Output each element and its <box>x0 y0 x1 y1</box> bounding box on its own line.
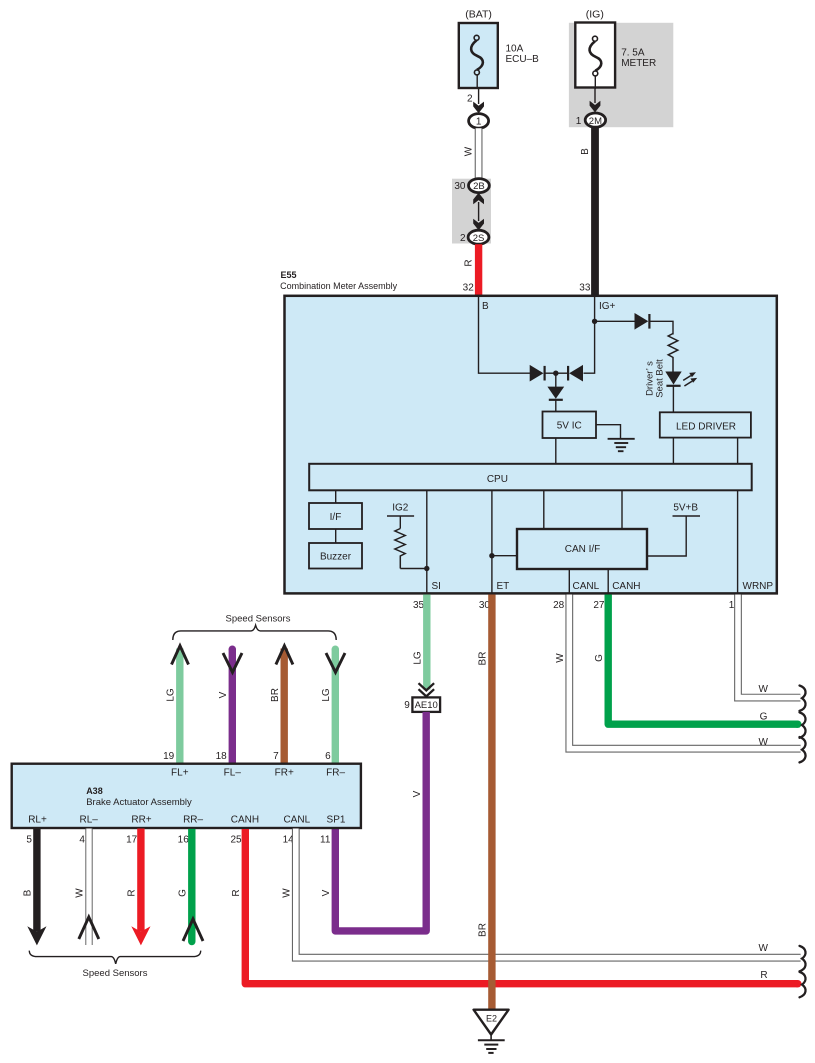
junction IG+ <box>592 319 597 324</box>
wire B from 2M to E55 pin 33 <box>591 127 599 295</box>
continuation curl (CANL W) <box>800 737 806 762</box>
svg-text:E2: E2 <box>486 1014 497 1024</box>
svg-text:7. 5A: 7. 5A <box>621 47 645 58</box>
arrow up 2B <box>473 193 484 205</box>
wire W from CANL pin 14 <box>296 829 801 958</box>
wire V FL- <box>229 649 236 763</box>
wire junction to diode D4 <box>555 373 557 387</box>
wire between arrows <box>478 202 480 221</box>
connector AE10 <box>412 697 440 712</box>
svg-text:W: W <box>758 737 768 748</box>
svg-text:R: R <box>231 889 242 896</box>
svg-text:9: 9 <box>404 700 410 711</box>
svg-text:2M: 2M <box>589 116 602 127</box>
svg-text:33: 33 <box>579 282 591 293</box>
svg-text:I/F: I/F <box>330 512 342 523</box>
wire LED DRIVER to CPU (left) <box>672 438 674 464</box>
svg-text:1: 1 <box>576 116 582 127</box>
svg-text:W: W <box>758 684 768 695</box>
arrow into connector 2M <box>590 101 601 113</box>
svg-text:32: 32 <box>463 282 475 293</box>
connector 2S <box>468 230 489 244</box>
connector 2B <box>469 179 490 193</box>
svg-text:B: B <box>23 889 34 896</box>
wire ET junction to CAN I/F <box>492 555 517 557</box>
wire fuse to connector 1 <box>476 75 478 89</box>
svg-text:FL+: FL+ <box>171 767 189 778</box>
svg-text:2: 2 <box>467 94 473 105</box>
svg-text:28: 28 <box>553 600 565 611</box>
svg-text:5V+B: 5V+B <box>673 503 698 514</box>
svg-text:19: 19 <box>163 751 175 762</box>
svg-text:V: V <box>412 790 423 797</box>
svg-text:B: B <box>580 148 591 155</box>
svg-text:16: 16 <box>178 834 190 845</box>
wire CANH pin <box>607 569 609 593</box>
double chevron into AE10 <box>419 683 435 696</box>
svg-text:Speed Sensors: Speed Sensors <box>83 968 148 979</box>
svg-text:RR–: RR– <box>183 815 203 826</box>
svg-text:CANH: CANH <box>612 581 640 592</box>
svg-text:1: 1 <box>729 600 735 611</box>
fuse block gray background (IG) <box>569 23 673 127</box>
IG2 supply bar <box>387 515 414 517</box>
svg-text:V: V <box>218 691 229 698</box>
diode D3 (to LED) <box>635 313 649 330</box>
svg-text:A38: A38 <box>86 786 103 796</box>
svg-text:18: 18 <box>216 751 228 762</box>
svg-text:(BAT): (BAT) <box>465 9 492 21</box>
svg-text:1: 1 <box>476 117 482 128</box>
svg-text:W: W <box>555 653 566 663</box>
svg-text:ET: ET <box>497 581 510 592</box>
I/F box <box>309 503 362 529</box>
svg-text:RR+: RR+ <box>131 815 151 826</box>
fuse 10A ECU-B body <box>459 23 498 88</box>
svg-text:CPU: CPU <box>487 474 508 485</box>
arrow into connector 1 <box>473 102 484 114</box>
wire fuse to connector 2M <box>594 76 596 89</box>
svg-text:W: W <box>75 888 86 898</box>
wire LED DRIVER to CPU (right) <box>737 438 739 464</box>
arrow down RR+ <box>131 926 150 945</box>
connector 1 <box>469 114 489 129</box>
wire LG from SI pin 35 <box>423 595 430 690</box>
wire IG+ junction to diode D3 <box>595 320 635 322</box>
arrow down 2S <box>473 219 484 231</box>
svg-text:Buzzer: Buzzer <box>320 552 352 563</box>
svg-text:IG2: IG2 <box>392 503 409 514</box>
wire 5V IC to ground <box>596 425 621 439</box>
continuation curl (bottom R) <box>800 972 806 997</box>
wire R from 2S to E55 pin 32 <box>475 244 482 295</box>
svg-text:5: 5 <box>26 834 32 845</box>
svg-text:G: G <box>178 889 189 897</box>
svg-text:ECU–B: ECU–B <box>506 54 540 65</box>
svg-text:R: R <box>127 889 138 896</box>
wire G from CANH pin 27 <box>608 595 798 725</box>
connector 2M <box>585 113 605 127</box>
svg-text:B: B <box>482 301 489 312</box>
wire IG2 resistor to SI line <box>400 568 427 570</box>
wire IG+ internal <box>584 296 595 373</box>
arrow up FR+ <box>276 646 293 665</box>
wire R RR+ <box>137 829 144 932</box>
svg-text:2: 2 <box>460 233 466 244</box>
svg-text:27: 27 <box>593 600 605 611</box>
wire LG FR- <box>332 649 339 763</box>
continuation curl (CANH G) <box>800 712 806 737</box>
svg-text:Seat Belt: Seat Belt <box>654 359 665 398</box>
svg-text:SI: SI <box>432 581 441 592</box>
wire V from AE10 to SP1 <box>335 712 426 931</box>
wire CANL pin <box>568 569 570 593</box>
A38 Brake Actuator Assembly box <box>12 764 361 828</box>
diode D2 (from IG+) <box>569 365 583 382</box>
wire BR from ET pin 30 <box>488 595 495 1010</box>
svg-text:LED DRIVER: LED DRIVER <box>676 422 736 433</box>
arrow down RL+ <box>27 926 46 945</box>
wire SI <box>426 490 428 593</box>
wire W from WRNP pin 1 <box>738 595 800 698</box>
resistor (seat belt LED) <box>668 334 678 372</box>
svg-text:30: 30 <box>454 181 466 192</box>
CPU box <box>309 464 752 491</box>
fuse 7.5A METER element <box>590 41 602 71</box>
svg-text:FL–: FL– <box>224 767 242 778</box>
wire ET <box>491 490 493 593</box>
arrow up RR- <box>183 919 203 941</box>
wire W RL- <box>85 829 92 946</box>
svg-text:CANL: CANL <box>283 815 310 826</box>
svg-text:G: G <box>594 654 605 662</box>
arrow down FL- <box>223 653 242 672</box>
wire W from connector 1 to 2B <box>475 128 483 180</box>
LED DRIVER box <box>660 412 751 437</box>
continuation curl (WRNP W) <box>800 686 806 711</box>
continuation curl (bottom W) <box>800 946 806 971</box>
svg-text:LG: LG <box>412 651 423 665</box>
wire 5V+B to CAN I/F <box>647 516 686 556</box>
svg-text:Brake Actuator Assembly: Brake Actuator Assembly <box>86 797 192 808</box>
svg-text:CANL: CANL <box>573 581 600 592</box>
brace speed sensors bottom <box>29 951 200 964</box>
LED arrows <box>683 376 691 381</box>
wire CPU to CAN I/F (right) <box>621 490 623 529</box>
svg-text:R: R <box>464 259 475 266</box>
svg-text:WRNP: WRNP <box>743 581 774 592</box>
ground E2 triangle <box>474 1010 509 1035</box>
svg-text:R: R <box>760 970 767 981</box>
svg-text:5V IC: 5V IC <box>557 421 582 432</box>
E55 Combination Meter Assembly box <box>285 296 777 594</box>
svg-text:Combination Meter Assembly: Combination Meter Assembly <box>280 281 398 291</box>
wire D3 to resistor <box>649 321 673 334</box>
LED seat belt <box>665 372 681 385</box>
svg-text:RL+: RL+ <box>28 815 47 826</box>
arrow up FL+ <box>172 646 189 665</box>
arrow down FR- <box>326 653 345 672</box>
fuse 10A ECU-B element <box>471 40 483 70</box>
junction SI <box>424 566 429 571</box>
svg-text:CAN I/F: CAN I/F <box>565 544 601 555</box>
svg-text:BR: BR <box>478 652 489 666</box>
wire CPU to CAN I/F (left) <box>543 490 545 529</box>
svg-text:35: 35 <box>413 600 425 611</box>
junction ET <box>489 553 494 558</box>
svg-text:FR–: FR– <box>326 767 345 778</box>
svg-text:LG: LG <box>166 688 177 702</box>
wire I/F to Buzzer <box>335 529 337 543</box>
junction diode pair <box>553 371 558 376</box>
connector block gray background 2B/2S <box>452 179 491 244</box>
svg-text:7: 7 <box>273 751 279 762</box>
wire G RR- <box>188 829 195 942</box>
svg-text:2S: 2S <box>473 233 485 244</box>
wire R from CANH pin 25 <box>245 829 798 984</box>
wire CPU to I/F <box>335 490 337 503</box>
svg-text:BR: BR <box>270 688 281 702</box>
Buzzer box <box>309 543 362 569</box>
ground E2 stem and bars <box>490 1034 492 1041</box>
wire BR FR+ <box>281 649 288 763</box>
wire B RL+ <box>33 829 40 932</box>
wire 5V IC to CPU <box>555 438 557 464</box>
wire B internal <box>479 296 531 373</box>
diode D4 (to 5V IC) <box>547 387 564 399</box>
wire WRNP <box>737 490 739 593</box>
svg-text:SP1: SP1 <box>327 815 346 826</box>
svg-text:(IG): (IG) <box>586 9 604 21</box>
arrow up RL- <box>79 917 99 939</box>
diode D1 (from B) <box>530 365 544 382</box>
wire LED to LED DRIVER <box>672 386 674 413</box>
svg-text:2B: 2B <box>473 181 485 192</box>
svg-text:IG+: IG+ <box>599 301 616 312</box>
svg-text:G: G <box>760 712 768 723</box>
svg-text:BR: BR <box>478 923 489 937</box>
svg-text:4: 4 <box>79 834 85 845</box>
ground (5V IC) <box>608 438 635 440</box>
resistor IG2 <box>395 529 405 569</box>
svg-text:CANH: CANH <box>231 815 259 826</box>
brace speed sensors top <box>173 625 336 640</box>
svg-text:E55: E55 <box>281 270 297 280</box>
wire LG FL+ <box>176 649 183 763</box>
wire W from CANL pin 28 <box>569 595 800 749</box>
svg-text:10A: 10A <box>506 44 524 55</box>
fuse 7.5A METER body <box>575 23 615 88</box>
svg-text:6: 6 <box>325 751 331 762</box>
svg-text:W: W <box>464 146 475 156</box>
svg-text:25: 25 <box>230 834 242 845</box>
svg-text:RL–: RL– <box>80 815 99 826</box>
svg-text:17: 17 <box>126 834 138 845</box>
svg-text:AE10: AE10 <box>415 700 438 711</box>
5V+B supply bar <box>673 515 701 517</box>
CAN I/F box <box>517 529 647 569</box>
5V IC box <box>543 412 597 439</box>
svg-text:LG: LG <box>321 688 332 702</box>
svg-text:FR+: FR+ <box>275 767 294 778</box>
svg-text:11: 11 <box>320 834 331 845</box>
svg-text:Speed Sensors: Speed Sensors <box>226 614 291 625</box>
svg-text:W: W <box>758 943 768 954</box>
svg-text:W: W <box>282 888 293 898</box>
svg-text:V: V <box>321 889 332 896</box>
svg-text:METER: METER <box>621 58 656 69</box>
